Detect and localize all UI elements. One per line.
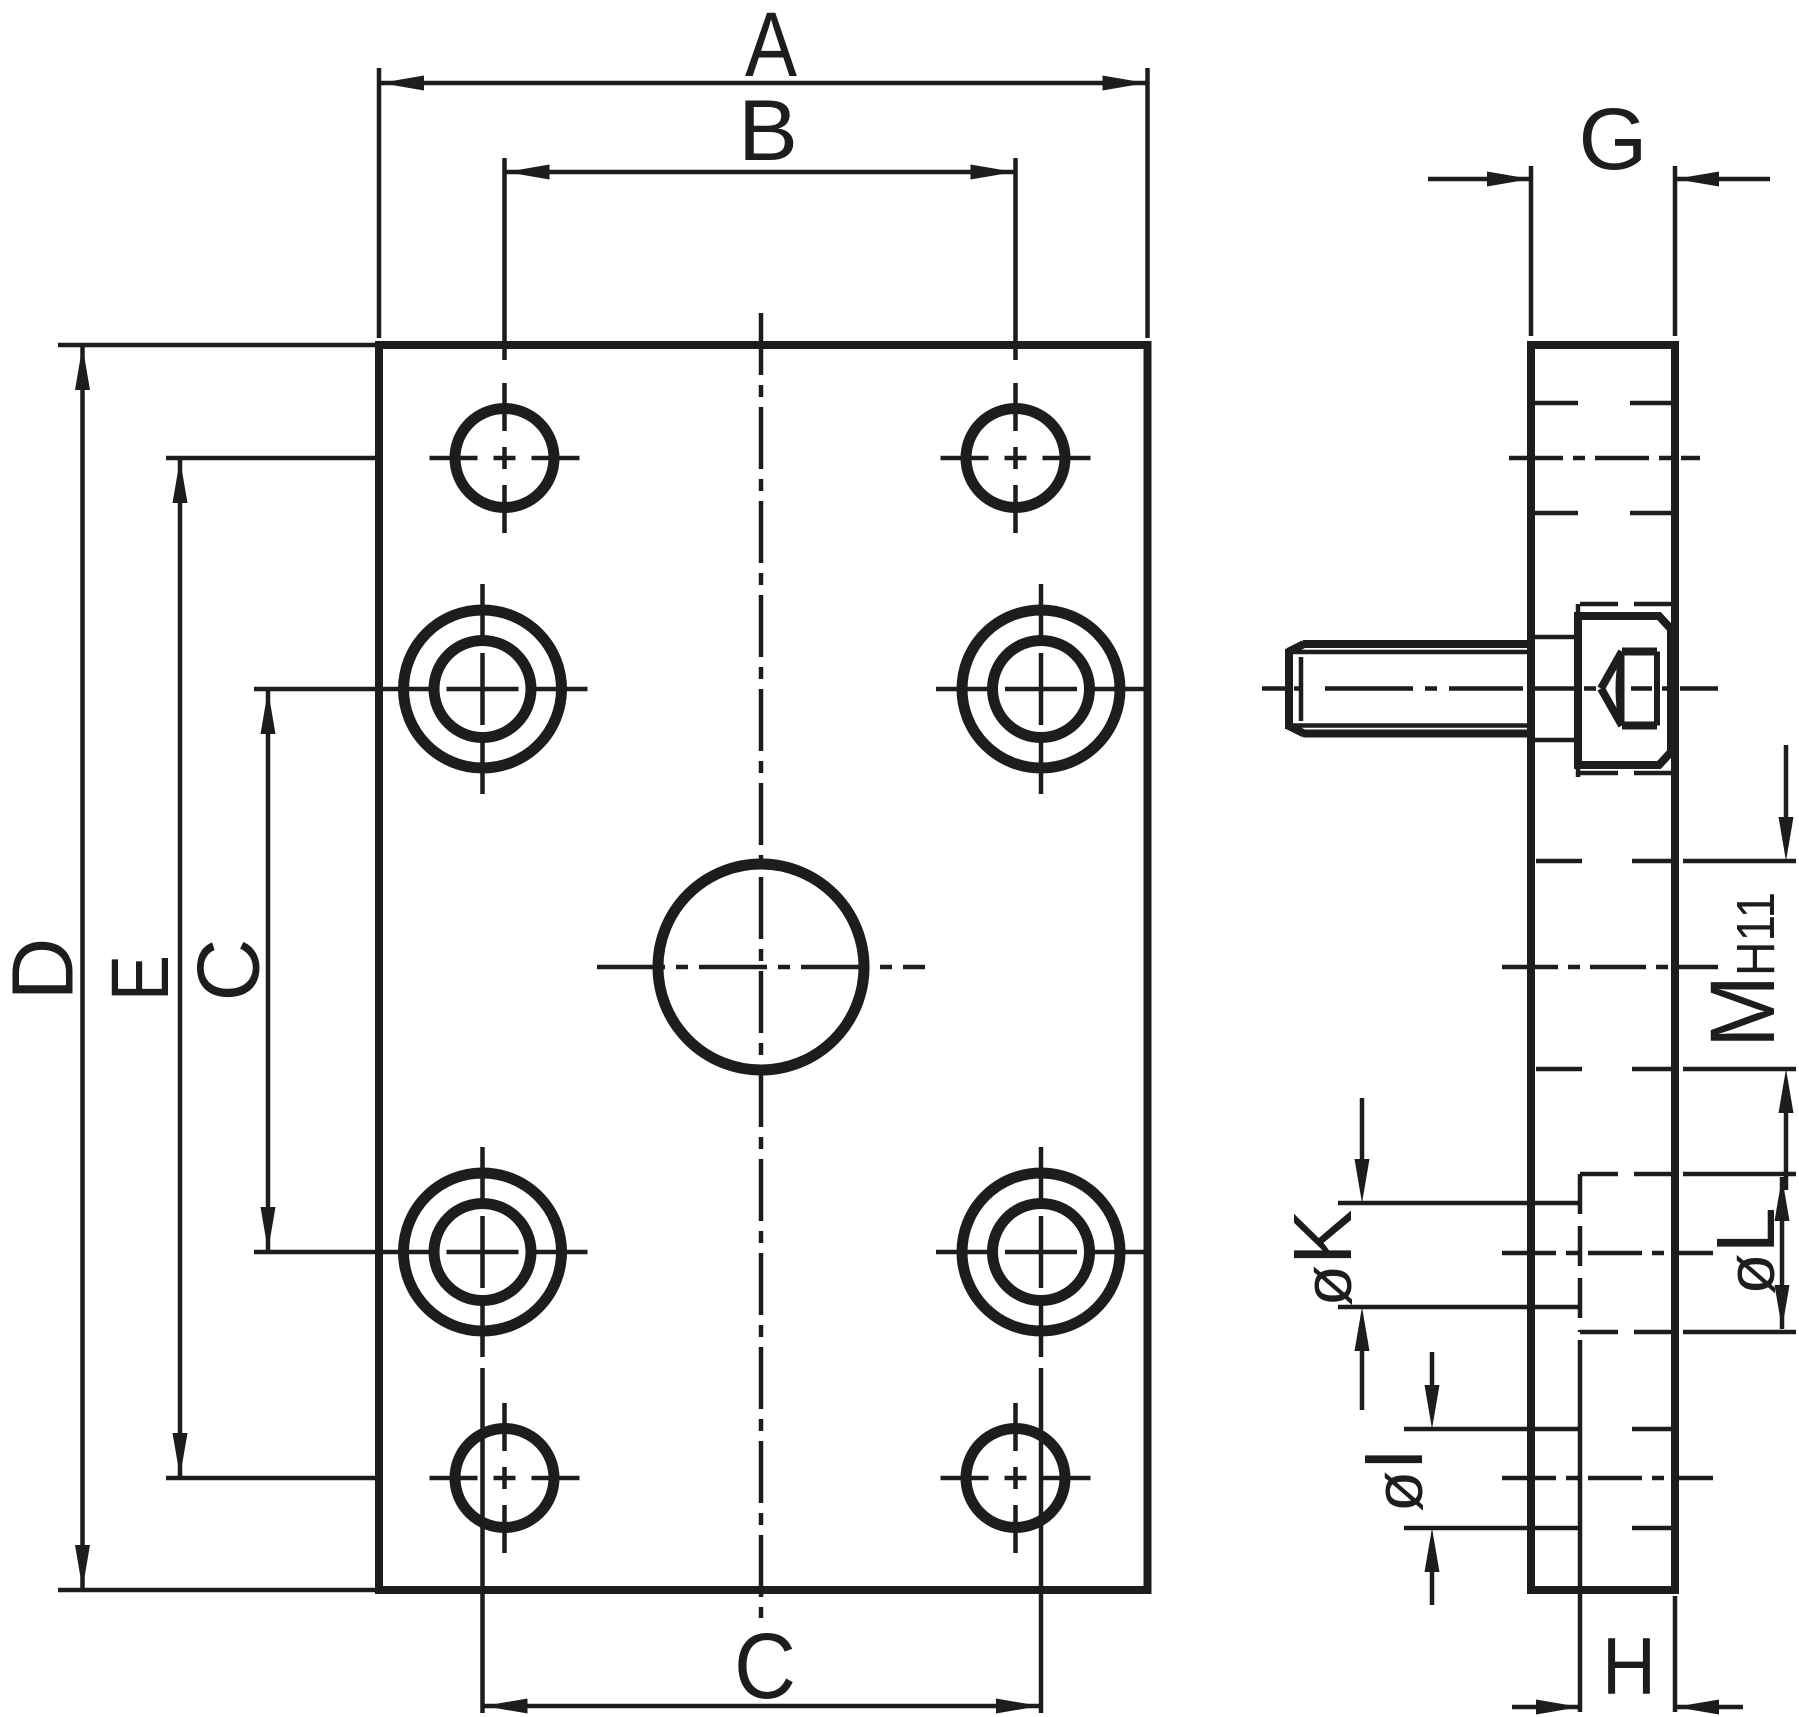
- dimension D: [0, 345, 377, 1590]
- dimension B: [505, 83, 1016, 360]
- pilot hole top-right: [941, 383, 1091, 533]
- pilot hole bottom-right: [941, 1403, 1091, 1553]
- lower counterbore hidden lines (side view): [1338, 1174, 1673, 1332]
- counterbore hole bottom-left: [378, 1147, 588, 1357]
- screw axis: [1262, 686, 1718, 691]
- svg-text:D: D: [0, 938, 92, 1001]
- dimension E: [95, 458, 378, 1478]
- front plate outline: [379, 345, 1148, 1590]
- lower counterbore axis (side view): [1502, 1251, 1713, 1256]
- screw shaft: [1288, 644, 1531, 734]
- svg-text:B: B: [738, 83, 798, 179]
- counterbore hole top-left: [378, 584, 588, 794]
- svg-text:H11: H11: [1726, 892, 1786, 976]
- svg-text:C: C: [734, 1614, 796, 1717]
- dimension A: [379, 0, 1148, 338]
- dimension G: [1428, 91, 1770, 336]
- svg-text:øI: øI: [1347, 1448, 1440, 1513]
- dimension oL: [1683, 1174, 1796, 1332]
- center hole hidden lines (side view): [1536, 861, 1673, 1069]
- center hole: [658, 864, 864, 1070]
- dimension C horizontal: [483, 1368, 1042, 1717]
- counterbore hole bottom-right: [936, 1147, 1146, 1357]
- front plate vertical centerline: [759, 313, 764, 1618]
- dimension oK: [1276, 1098, 1370, 1410]
- screw head: [1578, 616, 1671, 765]
- svg-text:H: H: [1602, 1622, 1656, 1712]
- pilot hole top-left: [430, 383, 580, 533]
- dimension H: [1512, 1340, 1743, 1715]
- svg-text:C: C: [179, 939, 278, 1002]
- svg-text:G: G: [1579, 91, 1648, 188]
- upper counterbore hidden lines (side view): [1533, 604, 1673, 777]
- center hole axis (side view): [1502, 965, 1718, 970]
- dimension M H11: [1683, 745, 1796, 1190]
- counterbore hole top-right: [936, 584, 1146, 794]
- svg-text:M: M: [1692, 975, 1794, 1048]
- pilot hole bottom-left: [430, 1403, 580, 1553]
- screw hex socket: [1601, 652, 1657, 726]
- center hole horizontal centerline: [597, 965, 925, 970]
- top hole hidden lines (side view): [1533, 403, 1673, 513]
- svg-text:E: E: [95, 955, 186, 1001]
- bottom hole hidden lines (side view): [1404, 1429, 1671, 1528]
- bottom hole axis (side view): [1502, 1476, 1713, 1481]
- dimension oI: [1347, 1352, 1440, 1605]
- dimension C vertical: [179, 689, 379, 1252]
- svg-text:øK: øK: [1276, 1210, 1369, 1307]
- side plate outline: [1531, 345, 1675, 1590]
- top hole axis (side view): [1509, 456, 1700, 461]
